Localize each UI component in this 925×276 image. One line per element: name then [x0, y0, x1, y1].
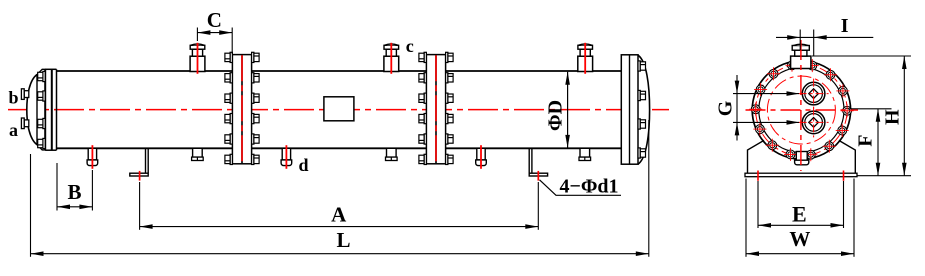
girth flange 2 red gasket centerline [435, 55, 437, 163]
girth flange 1 left bolt row 3 [225, 93, 233, 103]
left saddle red hole mark [139, 171, 141, 181]
nameplate rectangle on shell [324, 97, 354, 121]
girth flange 1 left bolt row 6 [225, 154, 233, 164]
svg-text:4−Φd1: 4−Φd1 [559, 175, 618, 197]
bottom nozzle B3 red centerline [480, 145, 482, 169]
top nozzle N1 neck [192, 49, 202, 56]
svg-text:c: c [406, 36, 414, 56]
top nozzle N1 cap flange [190, 45, 205, 49]
girth flange 2 left bolt row 2 [419, 73, 427, 83]
svg-text:A: A [331, 203, 347, 227]
right head bolt y=153 [638, 148, 646, 158]
bottom nozzle d red centerline [285, 145, 287, 169]
girth flange 2 right bolt row 3 [446, 93, 454, 103]
end view bolt hole 14 [836, 124, 849, 137]
top nozzle N3 cap flange [578, 45, 593, 49]
bottom stub S2 end flange [386, 157, 398, 160]
top nozzle N1 red centerline [197, 43, 199, 74]
girth flange 1 right bolt row 4 [252, 114, 260, 124]
left dished head arc [27, 75, 37, 145]
main red centerline [8, 109, 669, 111]
red hole mark right on saddle base [843, 171, 845, 181]
right head flange [621, 55, 638, 164]
bottom stub S3 end flange [579, 157, 591, 160]
top nozzle c cap flange [384, 45, 399, 49]
girth flange 2 right bolt row 4 [446, 114, 454, 124]
girth flange 1 joint line [241, 55, 243, 163]
bottom nozzle d pipe [282, 148, 290, 160]
left head bottom edge [45, 149, 56, 151]
left head bolt y=143.5 [38, 138, 46, 148]
end view bolt hole 3 [824, 68, 837, 81]
end view saddle base plate [745, 173, 857, 177]
svg-text:E: E [792, 202, 807, 227]
bottom stub S2 pipe [387, 148, 397, 157]
bottom nozzle B1 end flange [87, 160, 98, 166]
end view bolt hole 1 [841, 104, 854, 117]
girth flange 2 joint line [435, 55, 437, 163]
girth flange 2 body [426, 55, 445, 164]
girth flange 1 left bolt row 1 [225, 52, 233, 62]
girth flange 2 right bolt row 1 [446, 52, 454, 62]
end view bolt hole 4 [806, 59, 819, 72]
bottom nozzle B1 pipe [88, 148, 96, 160]
top nozzle N3 red centerline [584, 43, 586, 74]
girth flange 2 left bolt row 6 [419, 154, 427, 164]
left head bolt y=123.5 [38, 118, 46, 128]
top nozzle N1 base [190, 56, 205, 71]
svg-text:W: W [789, 227, 810, 251]
end view saddle support [748, 140, 856, 173]
end view bolt hole 11 [784, 148, 797, 161]
end view top nozzle dome [793, 44, 808, 45]
right saddle support [529, 148, 547, 176]
top nozzle N3 neck [580, 49, 590, 56]
end view bolt hole 7 [754, 83, 767, 96]
top nozzle c cap dome [384, 44, 398, 45]
bottom stub S3 pipe [580, 148, 590, 157]
dimension PhiD vertical line [567, 72, 569, 148]
bottom nozzle d end flange [281, 160, 292, 166]
svg-text:G: G [715, 100, 737, 116]
end view red bolt circle [756, 64, 847, 155]
end view flange inner circle [759, 67, 844, 152]
right dished head arc [638, 55, 650, 164]
girth flange 1 left bolt row 4 [225, 114, 233, 124]
girth flange 2 left bolt row 5 [419, 134, 427, 144]
end view red horizontal centerline [746, 109, 859, 111]
girth flange 1 left bolt row 5 [225, 134, 233, 144]
right head bolt y=66 [638, 61, 646, 71]
end view bolt hole 2 [836, 84, 849, 97]
svg-text:F: F [854, 135, 876, 147]
end view bolt hole 6 [767, 67, 780, 80]
dimension H [812, 55, 911, 57]
girth flange 2 left bolt row 1 [419, 52, 427, 62]
end view bolt hole 12 [804, 148, 817, 161]
end view bolt hole 8 [749, 103, 762, 116]
svg-text:d: d [298, 155, 308, 175]
girth flange 2 right bolt row 5 [446, 134, 454, 144]
end view outer flange circle [752, 61, 850, 159]
right saddle red hole mark [537, 171, 539, 181]
svg-text:C: C [207, 8, 222, 32]
svg-text:b: b [8, 87, 18, 107]
left head flange face line [44, 69, 46, 150]
top nozzle N1 cap dome [191, 44, 205, 45]
top nozzle c red centerline [390, 43, 392, 74]
PhiD top arrow [565, 72, 570, 85]
top nozzle N3 cap dome [578, 44, 592, 45]
end view bottom drain stub [796, 152, 807, 161]
top nozzle N3 base [578, 56, 593, 71]
dimension F [848, 108, 892, 110]
nozzle a flange [21, 118, 24, 129]
leader 4-Phi-d1 [540, 180, 622, 196]
top nozzle c neck [386, 49, 396, 56]
end view bolt hole 5 [786, 59, 799, 72]
dimension I [776, 36, 873, 38]
bottom stub S2 flange split line [390, 157, 392, 160]
bottom stub S1 pipe [193, 148, 203, 157]
nozzle a pipe [24, 120, 29, 127]
left head bolt y=76.5 [38, 71, 46, 81]
right head bolt y=95.5 [638, 90, 646, 100]
bottom nozzle B1 red centerline [91, 145, 93, 169]
girth flange 2 right bolt row 6 [446, 154, 454, 164]
left head shell joint line [56, 69, 58, 150]
bottom stub S3 flange split line [584, 157, 586, 160]
svg-text:ΦD: ΦD [545, 100, 567, 131]
right head flange division [629, 55, 631, 164]
girth flange 2 left bolt row 4 [419, 114, 427, 124]
top nozzle c base [384, 56, 399, 71]
dimension C [196, 28, 198, 42]
right head bolt y=124 [638, 119, 646, 129]
dimension W [745, 179, 747, 257]
left head bolt y=96.0 [38, 91, 46, 101]
girth flange 1 right bolt row 3 [252, 93, 260, 103]
dimension L [30, 154, 32, 257]
shell bottom line [57, 147, 622, 149]
end view lower nozzle a circle [802, 111, 825, 134]
end view red vertical centerline [800, 40, 802, 171]
girth flange 1 right bolt row 6 [252, 154, 260, 164]
svg-text:L: L [336, 228, 350, 252]
left head tubesheet line [51, 69, 53, 150]
girth flange 2 left bolt row 3 [419, 93, 427, 103]
nozzle b flange [21, 89, 24, 100]
svg-text:H: H [881, 109, 903, 125]
end view bolt hole 9 [753, 123, 766, 136]
bottom stub S1 end flange [192, 157, 204, 160]
end view bolt hole 13 [823, 140, 836, 153]
dimension B [56, 163, 58, 211]
svg-text:B: B [67, 180, 81, 204]
girth flange 1 red gasket centerline [241, 55, 243, 163]
PhiD bottom arrow [565, 135, 570, 148]
dimension A [139, 182, 141, 230]
girth flange 2 right bolt row 2 [446, 73, 454, 83]
left head top edge [45, 68, 56, 70]
end view red gasket circle [767, 76, 835, 144]
end view upper nozzle b circle [802, 82, 825, 105]
end view bolt hole 10 [766, 139, 779, 152]
left saddle support [130, 148, 148, 176]
girth flange 1 right bolt row 2 [252, 73, 260, 83]
shell top line [57, 70, 622, 72]
girth flange 1 right bolt row 5 [252, 134, 260, 144]
left head flange ring [37, 69, 45, 150]
bottom nozzle B3 pipe [477, 148, 485, 160]
dimension G [733, 93, 799, 95]
svg-text:I: I [841, 15, 849, 37]
svg-text:a: a [9, 120, 18, 140]
girth flange 1 left bolt row 2 [225, 73, 233, 83]
girth flange 1 right bolt row 1 [252, 52, 260, 62]
end view top nozzle [791, 56, 811, 68]
bottom nozzle B3 end flange [476, 160, 487, 166]
red hole mark left on saddle base [757, 171, 759, 181]
girth flange 1 body [232, 55, 251, 164]
bottom stub S1 flange split line [196, 157, 198, 160]
nozzle b pipe [24, 91, 29, 98]
